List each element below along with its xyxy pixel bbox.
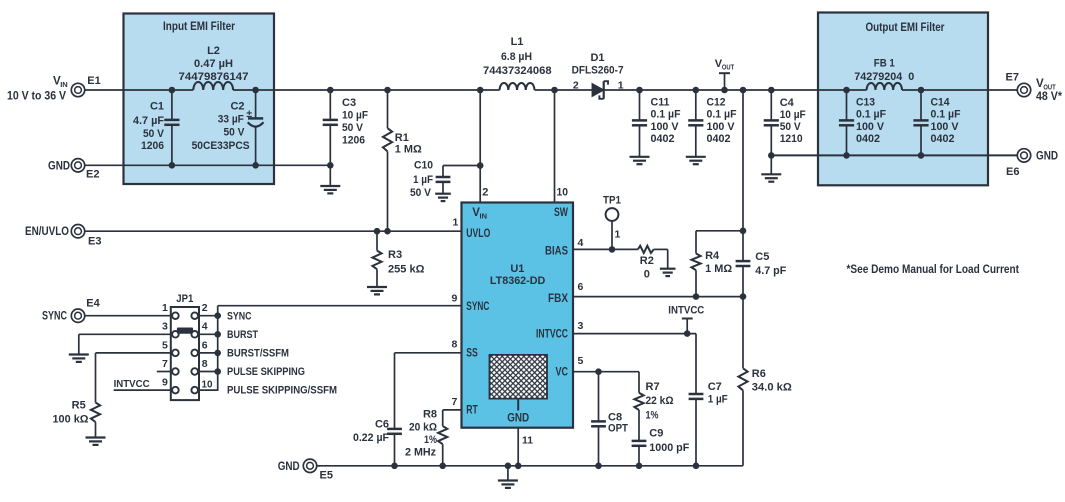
svg-text:IN: IN: [60, 80, 67, 89]
svg-text:BURST/SSFM: BURST/SSFM: [227, 348, 289, 360]
svg-text:E5: E5: [320, 469, 333, 481]
svg-text:C4: C4: [780, 97, 795, 109]
svg-text:20 kΩ: 20 kΩ: [409, 421, 437, 433]
svg-text:2: 2: [482, 187, 488, 199]
svg-text:1: 1: [453, 216, 459, 228]
svg-text:3: 3: [162, 321, 168, 333]
svg-text:R5: R5: [72, 400, 86, 412]
svg-text:R4: R4: [705, 250, 720, 262]
svg-text:Output EMI Filter: Output EMI Filter: [866, 20, 945, 34]
svg-text:C11: C11: [651, 97, 670, 109]
svg-text:EN/UVLO: EN/UVLO: [25, 226, 69, 238]
svg-text:L2: L2: [207, 45, 220, 57]
svg-text:33 µF: 33 µF: [218, 114, 244, 126]
svg-text:INTVCC: INTVCC: [114, 378, 150, 390]
svg-text:GND: GND: [1036, 151, 1058, 163]
svg-text:1 µF: 1 µF: [413, 174, 433, 186]
svg-text:0402: 0402: [931, 133, 955, 145]
svg-text:R1: R1: [395, 132, 409, 144]
svg-text:7: 7: [452, 396, 458, 408]
svg-text:100 V: 100 V: [651, 121, 680, 133]
svg-text:PULSE SKIPPING: PULSE SKIPPING: [227, 366, 305, 378]
svg-text:1206: 1206: [141, 140, 164, 152]
svg-text:BIAS: BIAS: [545, 246, 568, 258]
svg-text:0.1 µF: 0.1 µF: [707, 109, 737, 121]
svg-text:C10: C10: [414, 160, 433, 172]
svg-text:7: 7: [162, 358, 168, 370]
svg-text:4.7 µF: 4.7 µF: [133, 115, 164, 127]
svg-text:1 µF: 1 µF: [708, 393, 728, 405]
svg-text:DFLS260-7: DFLS260-7: [572, 65, 624, 77]
svg-text:TP1: TP1: [603, 195, 621, 207]
svg-text:1%: 1%: [424, 434, 437, 446]
svg-text:0.1 µF: 0.1 µF: [931, 109, 961, 121]
svg-text:E6: E6: [1006, 166, 1019, 178]
svg-text:0402: 0402: [707, 133, 731, 145]
svg-text:E3: E3: [88, 235, 101, 247]
svg-text:255 kΩ: 255 kΩ: [388, 264, 425, 276]
svg-text:4: 4: [578, 237, 584, 249]
svg-text:SYNC: SYNC: [466, 301, 489, 313]
svg-text:10: 10: [202, 379, 213, 391]
svg-text:*See Demo Manual for Load Curr: *See Demo Manual for Load Current: [847, 262, 1020, 276]
svg-text:4.7 pF: 4.7 pF: [755, 265, 786, 277]
svg-text:1: 1: [162, 302, 168, 314]
svg-text:1206: 1206: [342, 135, 365, 147]
svg-text:0402: 0402: [856, 133, 880, 145]
svg-text:E4: E4: [86, 298, 100, 310]
svg-text:50 V: 50 V: [224, 127, 246, 139]
svg-text:0.47 µH: 0.47 µH: [194, 58, 233, 70]
svg-text:0402: 0402: [651, 133, 675, 145]
svg-text:6: 6: [202, 339, 208, 351]
svg-text:74437324068: 74437324068: [483, 65, 552, 77]
svg-text:LT8362-DD: LT8362-DD: [490, 275, 546, 287]
svg-text:C13: C13: [856, 97, 875, 109]
svg-text:9: 9: [452, 293, 458, 305]
svg-text:UVLO: UVLO: [466, 228, 490, 240]
svg-text:10 V to 36 V: 10 V to 36 V: [7, 91, 66, 103]
svg-text:U1: U1: [510, 263, 524, 275]
svg-text:E1: E1: [87, 75, 100, 87]
svg-text:1 MΩ: 1 MΩ: [395, 144, 422, 156]
svg-text:INTVCC: INTVCC: [536, 328, 568, 340]
svg-text:C5: C5: [755, 251, 769, 263]
svg-text:100 kΩ: 100 kΩ: [53, 414, 89, 426]
svg-text:SW: SW: [554, 207, 568, 219]
svg-text:E2: E2: [86, 169, 99, 181]
svg-text:22 kΩ: 22 kΩ: [646, 395, 674, 407]
svg-text:RT: RT: [466, 405, 478, 417]
svg-text:10: 10: [557, 187, 569, 199]
svg-text:6.8 µH: 6.8 µH: [501, 51, 532, 63]
svg-text:SS: SS: [466, 348, 478, 360]
svg-text:9: 9: [162, 377, 168, 389]
svg-text:1%: 1%: [646, 410, 659, 422]
svg-text:Input EMI Filter: Input EMI Filter: [163, 19, 235, 33]
svg-text:C1: C1: [150, 100, 164, 112]
svg-text:8: 8: [452, 339, 458, 351]
svg-text:4: 4: [202, 321, 208, 333]
svg-text:INTVCC: INTVCC: [668, 304, 704, 316]
svg-text:R8: R8: [423, 409, 437, 421]
svg-text:R2: R2: [640, 255, 654, 267]
svg-text:C6: C6: [375, 419, 389, 431]
svg-text:JP1: JP1: [176, 293, 193, 305]
svg-text:C8: C8: [608, 411, 622, 423]
svg-text:1 MΩ: 1 MΩ: [705, 263, 732, 275]
svg-text:50 V: 50 V: [342, 122, 364, 134]
svg-text:0.22 µF: 0.22 µF: [353, 432, 389, 444]
svg-text:48 V*: 48 V*: [1036, 91, 1062, 103]
svg-text:L1: L1: [511, 36, 524, 48]
svg-text:50 V: 50 V: [780, 121, 802, 133]
svg-text:1210: 1210: [780, 133, 803, 145]
svg-text:2: 2: [573, 80, 579, 92]
svg-text:C2: C2: [230, 100, 244, 112]
svg-text:5: 5: [162, 339, 168, 351]
svg-text:0: 0: [644, 269, 650, 281]
svg-text:OPT: OPT: [608, 423, 628, 435]
svg-text:SYNC: SYNC: [227, 310, 252, 322]
svg-text:10 µF: 10 µF: [780, 109, 806, 121]
svg-text:C12: C12: [707, 97, 726, 109]
svg-text:100 V: 100 V: [856, 121, 885, 133]
svg-text:FBX: FBX: [548, 293, 568, 305]
svg-text:1: 1: [618, 80, 624, 92]
svg-text:±: ±: [246, 108, 252, 120]
svg-text:2: 2: [202, 302, 208, 314]
svg-text:0.1 µF: 0.1 µF: [651, 109, 681, 121]
svg-text:2 MHz: 2 MHz: [405, 446, 436, 458]
svg-text:C7: C7: [708, 381, 722, 393]
svg-text:BURST: BURST: [227, 329, 258, 341]
svg-text:GND: GND: [48, 160, 70, 172]
svg-text:SYNC: SYNC: [42, 311, 67, 323]
svg-text:50 V: 50 V: [410, 187, 432, 199]
svg-text:50 V: 50 V: [143, 128, 165, 140]
svg-text:74279204 0: 74279204 0: [854, 71, 914, 83]
svg-text:GND: GND: [278, 461, 300, 473]
svg-text:6: 6: [578, 281, 584, 293]
svg-text:8: 8: [202, 358, 208, 370]
svg-text:1000 pF: 1000 pF: [649, 442, 689, 454]
svg-text:FB 1: FB 1: [874, 57, 895, 69]
svg-text:100 V: 100 V: [931, 121, 960, 133]
svg-text:50CE33PCS: 50CE33PCS: [192, 140, 250, 152]
svg-text:74479876147: 74479876147: [179, 71, 249, 83]
svg-text:D1: D1: [590, 52, 604, 64]
svg-text:10 µF: 10 µF: [342, 110, 368, 122]
svg-text:5: 5: [578, 355, 584, 367]
svg-text:E7: E7: [1006, 72, 1019, 84]
svg-text:GND: GND: [507, 412, 529, 424]
svg-text:C14: C14: [931, 97, 951, 109]
svg-text:R3: R3: [388, 249, 402, 261]
svg-text:3: 3: [578, 320, 584, 332]
svg-text:34.0 kΩ: 34.0 kΩ: [752, 381, 792, 393]
svg-text:IN: IN: [480, 211, 488, 220]
svg-text:11: 11: [522, 435, 533, 447]
svg-text:R6: R6: [752, 368, 766, 380]
svg-text:100 V: 100 V: [707, 121, 736, 133]
svg-text:OUT: OUT: [722, 63, 735, 72]
svg-text:PULSE SKIPPING/SSFM: PULSE SKIPPING/SSFM: [227, 385, 337, 397]
svg-text:C9: C9: [649, 427, 663, 439]
svg-text:C3: C3: [342, 97, 356, 109]
svg-text:0.1 µF: 0.1 µF: [856, 109, 886, 121]
svg-text:R7: R7: [646, 381, 660, 393]
svg-text:1: 1: [615, 228, 621, 240]
svg-text:VC: VC: [556, 367, 569, 379]
